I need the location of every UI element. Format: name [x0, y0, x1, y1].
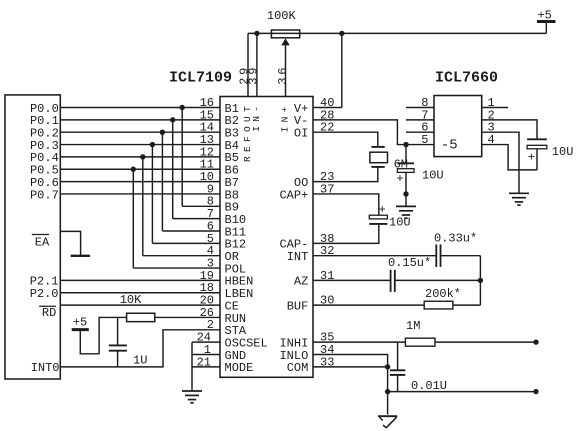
wire P2.0 to LBEN (pin 18)	[60, 292, 220, 294]
wire stub MODE (pin 21)	[192, 366, 220, 368]
wire P0.0 to ICL7109 B1 (pin 16)	[60, 107, 220, 109]
wire COM down to common line	[387, 367, 389, 392]
wire P0.3 to ICL7109 B4 (pin 13)	[60, 144, 220, 146]
potentiometer wiper arrow to pin 36	[285, 45, 287, 97]
wire pin 29 drop	[247, 33, 249, 96]
wire P0.7 to ICL7109 B8 (pin 9)	[60, 193, 220, 195]
capacitor C 0.33u plates	[435, 244, 437, 267]
ground symbol under -5V cap	[396, 205, 416, 207]
svg-text:ICL7109: ICL7109	[169, 70, 232, 87]
svg-text:100K: 100K	[267, 9, 297, 23]
wire P0.2 to ICL7109 B3 (pin 14)	[60, 131, 220, 133]
wire 0.15u cap to right rail	[395, 279, 481, 281]
ICL7660 pin 7 stub	[406, 119, 434, 121]
svg-text:10U: 10U	[422, 169, 444, 183]
svg-text:N: N	[279, 117, 290, 123]
svg-text:I: I	[279, 127, 290, 133]
svg-text:5: 5	[421, 133, 428, 147]
wire CAP+ (pin 37) to capacitor	[313, 194, 379, 215]
svg-text:+: +	[528, 150, 535, 164]
wire 0.33u cap to right rail	[441, 255, 481, 257]
wire P0.1 to ICL7109 B2 (pin 15)	[60, 119, 220, 121]
capacitor C 10U plates	[369, 215, 387, 219]
wire +5 to RUN line	[80, 317, 127, 353]
wire stub GND (pin 1)	[192, 354, 220, 356]
wire stub OSCSEL (pin 24)	[192, 341, 220, 343]
resistor R 200k body	[424, 301, 453, 309]
wire INT (pin 32) to 0.33u cap	[313, 255, 436, 257]
wire +5 rail	[248, 32, 546, 34]
wire V- (pin 28) to ICL7660 pin 5	[313, 120, 434, 145]
wire 200k to right rail	[453, 304, 481, 306]
wire vertical from P0.0 down to row 9	[181, 108, 183, 207]
svg-text:AZ: AZ	[294, 275, 308, 289]
svg-text:BUF: BUF	[287, 299, 309, 313]
svg-text:+5: +5	[73, 316, 87, 330]
svg-text:ICL7660: ICL7660	[435, 70, 498, 87]
ICL7660 pin 8 stub	[406, 107, 434, 109]
svg-text:EA: EA	[35, 235, 50, 249]
wire stub into ICL7109 pin 3	[133, 267, 220, 269]
wire INLO (pin 34) join COM	[313, 355, 388, 367]
svg-text:1U: 1U	[133, 353, 147, 367]
svg-text:RD: RD	[42, 306, 56, 320]
wire 1M to input terminal	[435, 341, 536, 343]
wire -5V net down to capacitor	[405, 145, 407, 164]
svg-text:10K: 10K	[120, 293, 142, 307]
svg-text:CAP+: CAP+	[279, 188, 308, 202]
svg-text:MODE: MODE	[225, 361, 254, 375]
wire stub V+ pin 40	[313, 107, 342, 109]
svg-text:E: E	[242, 146, 253, 152]
wire vertical from P0.4 down to row 13	[142, 157, 144, 256]
wire P2.1 to HBEN (pin 19)	[60, 279, 220, 281]
svg-text:P2.0: P2.0	[30, 287, 59, 301]
terminal dot input high	[533, 339, 538, 344]
power +5 bar (left)	[72, 328, 89, 331]
wire pump cap bottom	[536, 149, 538, 170]
svg-text:OI: OI	[294, 127, 308, 141]
svg-text:F: F	[242, 136, 253, 142]
converter U2 ICL7660 box	[434, 96, 482, 157]
wire stub into ICL7109 pin 5	[152, 242, 220, 244]
wire pin 4 to pump cap bottom	[482, 145, 537, 170]
wire pin 2 to pump cap	[482, 120, 537, 139]
wire EA to bar terminal	[60, 231, 80, 255]
junction dot on P0.5 line	[131, 167, 136, 172]
svg-text:6: 6	[276, 68, 290, 75]
svg-text:10U: 10U	[552, 145, 574, 159]
wire COM (pin 33)	[313, 366, 388, 368]
resistor R 10K body	[127, 313, 155, 321]
junction dot on P0.1 line	[170, 117, 175, 122]
wire INHI (pin 35) to 1M resistor	[313, 341, 405, 343]
power +5 terminal top right	[545, 22, 547, 34]
junction dot INLO/COM	[385, 364, 390, 369]
junction dot on P0.2 line	[160, 130, 165, 135]
svg-text:+5: +5	[537, 9, 551, 23]
wire capacitor to CAP- (pin 38)	[313, 224, 379, 243]
svg-text:-: -	[251, 106, 262, 112]
wire capacitor to INT0 line	[117, 351, 119, 367]
capacitor C 0.01U plates	[390, 369, 405, 371]
capacitor C 0.15u plates	[390, 270, 392, 292]
wire AZ (pin 31) to 0.15u cap	[313, 279, 391, 281]
terminal dot input low	[533, 389, 538, 394]
wire common line to input terminal	[388, 391, 536, 393]
EA termination bar	[71, 255, 90, 257]
analog ground arrow symbol	[378, 415, 397, 417]
wire pin 3 to ground	[482, 132, 519, 193]
wire stub into ICL7109 pin 7	[173, 218, 220, 220]
ground symbol ICL7660	[509, 192, 529, 194]
svg-text:0.33u*: 0.33u*	[434, 232, 477, 246]
wire RUN node down to capacitor	[117, 317, 119, 345]
wire P0.6 to ICL7109 B7 (pin 10)	[60, 181, 220, 183]
wire stub into ICL7109 pin 8	[182, 205, 220, 207]
junction dot above ground	[403, 191, 408, 196]
wire vertical from P0.2 down to row 11	[161, 132, 163, 231]
svg-text:+: +	[279, 106, 290, 112]
junction dot pin 39 at rail	[254, 31, 259, 36]
wire cap to common line	[397, 375, 399, 392]
svg-text:I: I	[251, 126, 262, 132]
svg-text:P0.7: P0.7	[30, 188, 59, 202]
crystal Y1 body	[370, 152, 388, 163]
svg-text:0.01U: 0.01U	[411, 379, 447, 393]
potentiometer R 100K body	[271, 30, 299, 38]
ADC U1 ICL7109 box	[220, 97, 313, 378]
MCU box (8051 port box)	[5, 95, 60, 379]
svg-text:1M: 1M	[406, 319, 420, 333]
wire stub into ICL7109 pin 6	[162, 230, 220, 232]
wire P0.5 to ICL7109 B6 (pin 11)	[60, 168, 220, 170]
wire pin 39 drop	[256, 33, 258, 96]
wire vertical from P0.3 down to row 12	[151, 145, 153, 244]
svg-text:+: +	[396, 172, 403, 186]
svg-text:INT0: INT0	[31, 361, 60, 375]
wire BUF (pin 30) to 200k resistor	[313, 304, 424, 306]
wire stub into ICL7109 pin 4	[143, 255, 220, 257]
junction dot pin 40 riser at rail	[339, 31, 344, 36]
wire common to analog ground	[387, 392, 389, 415]
wire 10K to RUN (pin 26)	[155, 316, 220, 318]
wire OI (pin 22) to crystal	[313, 132, 378, 147]
crystal Y1 6M plates	[371, 146, 384, 148]
wire crystal to OO (pin 23)	[313, 167, 378, 182]
wire capacitor to ground	[405, 172, 407, 206]
junction dot on P0.3 line	[150, 142, 155, 147]
junction dot on -5V net	[403, 142, 408, 147]
junction dot common line	[385, 389, 390, 394]
svg-text:3: 3	[276, 78, 290, 85]
svg-text:R: R	[242, 156, 253, 162]
junction dot on P0.0 line	[180, 105, 185, 110]
ICL7660 pin 6 stub	[406, 131, 434, 133]
capacitor C 10U (pump) plates	[527, 138, 547, 140]
capacitor C 10U (V- filter) plates	[397, 162, 414, 164]
ground symbol below ICL7109	[182, 390, 202, 392]
capacitor C 1U plates	[109, 344, 127, 346]
svg-text:3: 3	[246, 78, 260, 85]
wire RD to CE (pin 20)	[60, 304, 220, 306]
svg-text:9: 9	[246, 68, 260, 75]
wire rail down to V+ (pin 40)	[341, 33, 343, 107]
wire P0.4 to ICL7109 B5 (pin 12)	[60, 156, 220, 158]
wire INHI node down to 0.01U cap	[397, 342, 399, 370]
wire vertical from P0.1 down to row 10	[172, 120, 174, 219]
ICL7660 pin 1 stub (n.c.)	[482, 107, 508, 109]
resistor R 1M body	[405, 338, 435, 346]
svg-text:-5: -5	[441, 138, 458, 154]
svg-text:INT: INT	[287, 250, 309, 264]
wire bracket vertical to ground	[191, 342, 193, 391]
wire vertical from P0.5 down to row 14	[132, 169, 134, 268]
junction dot on P0.4 line	[140, 154, 145, 159]
wire integrator right rail	[479, 256, 481, 305]
svg-text:0.15u*: 0.15u*	[388, 256, 431, 270]
svg-text:COM: COM	[287, 361, 309, 375]
wire INT0 to STA (pin 2)	[60, 330, 220, 367]
svg-text:200k*: 200k*	[425, 287, 461, 301]
svg-text:N: N	[251, 116, 262, 122]
junction dot on integrator rail	[478, 278, 483, 283]
